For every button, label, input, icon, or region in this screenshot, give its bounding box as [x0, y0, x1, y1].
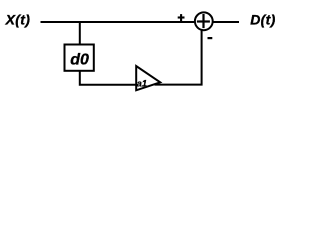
wire from d0 to amplifier	[80, 71, 140, 85]
minus sign at summer feedback input	[208, 37, 213, 39]
svg-text:D(t): D(t)	[250, 12, 276, 28]
wire output from summer to D(t)	[213, 21, 239, 23]
wire branch down from node to d0	[79, 22, 81, 46]
svg-text:a1: a1	[137, 78, 147, 88]
plus sign at summer input	[178, 14, 185, 21]
svg-text:d0: d0	[70, 51, 89, 68]
svg-text:X(t): X(t)	[5, 12, 31, 28]
wire feedback from amplifier output to summer minus input	[155, 31, 202, 85]
wire input from X(t) to summer	[41, 21, 197, 23]
amplifier a1	[136, 66, 160, 90]
block d0	[65, 45, 94, 71]
summing junction U1	[195, 12, 213, 30]
